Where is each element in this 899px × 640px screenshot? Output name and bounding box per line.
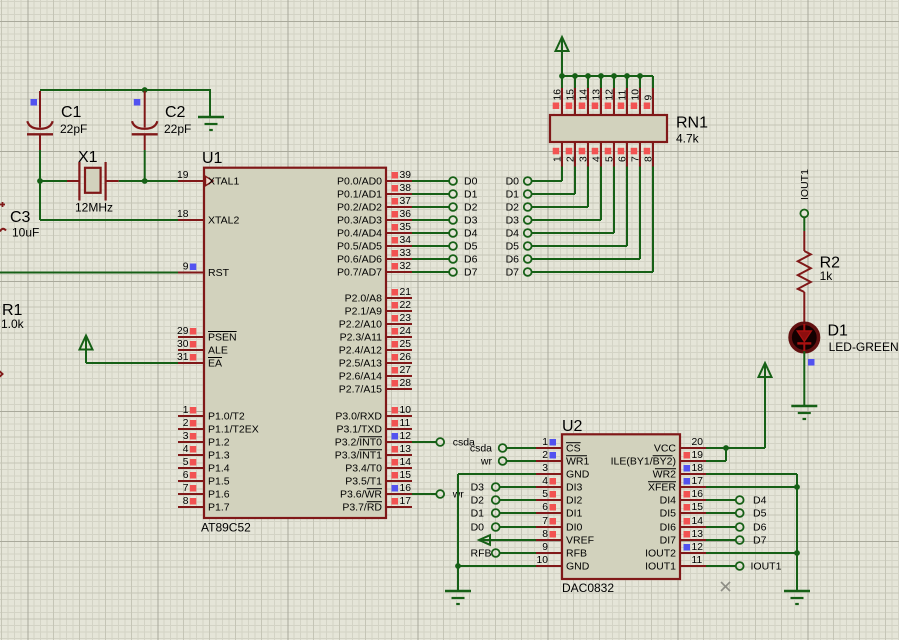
- LED D1 selection mark: [808, 359, 815, 366]
- terminal D6 (left column): [449, 255, 457, 263]
- svg-text:3: 3: [183, 431, 189, 442]
- RN1 pin 1 (bottom): [553, 142, 564, 167]
- capacitor C1 curved plate: [27, 121, 52, 129]
- junction top wire / C2: [142, 87, 148, 93]
- svg-text:P3.3/INT1: P3.3/INT1: [335, 450, 382, 462]
- svg-text:ILE(BY1/BY2): ILE(BY1/BY2): [611, 456, 676, 468]
- svg-text:ALE: ALE: [208, 345, 228, 357]
- svg-text:12: 12: [692, 542, 704, 553]
- U1 pin 24 (P2.3/A11): [386, 326, 412, 337]
- junction RN1 bus pin 11: [624, 73, 630, 79]
- terminal D4 (RN1 column): [524, 229, 532, 237]
- svg-text:5: 5: [183, 457, 189, 468]
- svg-text:16: 16: [400, 483, 412, 494]
- svg-text:9: 9: [542, 542, 548, 553]
- U2 pin 17 (XFER): [680, 476, 706, 487]
- wire C2 bottom to node: [144, 150, 146, 181]
- terminal D5 (left column): [449, 242, 457, 250]
- wire U2 to terminal D7: [706, 539, 736, 541]
- svg-text:D0: D0: [471, 522, 485, 534]
- wire terminal D6 to RN1 pin 7: [532, 167, 640, 260]
- svg-text:1k: 1k: [820, 269, 834, 283]
- wire terminal D1 to RN1 pin 2: [532, 167, 575, 195]
- svg-text:12: 12: [605, 89, 616, 101]
- U1 pin name labels (right column): [335, 176, 383, 514]
- svg-text:8: 8: [183, 496, 189, 507]
- svg-text:P3.1/TXD: P3.1/TXD: [336, 424, 382, 436]
- svg-text:DI1: DI1: [566, 508, 583, 520]
- svg-text:P2.6/A14: P2.6/A14: [339, 371, 382, 383]
- RN1 pin 5 (bottom): [605, 142, 616, 167]
- junction RN1 bus pin 10: [637, 73, 643, 79]
- svg-text:1.0k: 1.0k: [1, 317, 25, 331]
- svg-text:22: 22: [400, 300, 412, 311]
- wire C1/C2 top to ground: [40, 89, 211, 91]
- svg-text:DI2: DI2: [566, 495, 583, 507]
- wire power to EA row: [85, 350, 87, 364]
- svg-text:IOUT1: IOUT1: [751, 561, 782, 573]
- wire U1 P0.1 to terminal D1: [412, 193, 449, 195]
- junction RN1 bus pin 15: [572, 73, 578, 79]
- svg-text:2: 2: [566, 156, 577, 162]
- terminal D3 (RN1 column): [524, 216, 532, 224]
- svg-text:DI7: DI7: [660, 535, 677, 547]
- svg-text:DI4: DI4: [660, 495, 677, 507]
- U1 pin 26 (P2.5/A13): [386, 352, 412, 363]
- svg-text:D4: D4: [753, 495, 767, 507]
- svg-text:DI6: DI6: [660, 522, 677, 534]
- svg-text:C1: C1: [61, 104, 82, 121]
- svg-text:P1.0/T2: P1.0/T2: [208, 411, 245, 423]
- RN1 pin 13 (top): [592, 77, 603, 115]
- svg-text:XFER: XFER: [648, 482, 676, 494]
- svg-text:9: 9: [183, 262, 189, 273]
- wire to XTAL2 pin: [40, 219, 178, 221]
- wire VCC up to power: [764, 377, 766, 448]
- wire U1 P3.6 to terminal wr: [412, 493, 436, 495]
- capacitor C2 selection mark: [134, 99, 141, 106]
- junction RN1 bus pin 14: [585, 73, 591, 79]
- wire terminal D4 to RN1 pin 5: [532, 167, 614, 234]
- no-connect X marker: [721, 582, 730, 591]
- svg-text:1: 1: [183, 405, 189, 416]
- op-amp U2 body (DAC0832): [562, 434, 680, 579]
- svg-text:D7: D7: [506, 267, 520, 279]
- crystal X1: [67, 162, 119, 201]
- svg-text:38: 38: [400, 183, 412, 194]
- RN1 pin 14 (top): [579, 77, 590, 115]
- U1 pin 13 (P3.3/INT1): [386, 444, 412, 455]
- svg-text:18: 18: [177, 209, 189, 220]
- capacitor C1 selection mark: [31, 99, 38, 106]
- op-amp U1 body (AT89C52): [204, 168, 386, 518]
- svg-text:P2.5/A13: P2.5/A13: [339, 358, 382, 370]
- svg-text:6: 6: [542, 502, 548, 513]
- svg-text:EA: EA: [208, 358, 222, 370]
- svg-text:2: 2: [542, 450, 548, 461]
- wire XFER pin17: [706, 486, 797, 488]
- svg-text:24: 24: [400, 326, 412, 337]
- svg-text:D0: D0: [506, 176, 520, 188]
- U1 pin 29 (PSEN): [177, 326, 204, 337]
- wire RST net: [0, 272, 178, 274]
- terminal wr (U2 side): [499, 457, 507, 465]
- svg-text:VREF: VREF: [566, 535, 594, 547]
- wire to EA pin: [86, 362, 178, 364]
- svg-text:10: 10: [537, 555, 549, 566]
- svg-text:D6: D6: [753, 522, 767, 534]
- U1 pin 38 (P0.1/AD1): [386, 183, 412, 194]
- wire bus down to RN1 pin 9: [652, 76, 654, 87]
- RN1 pin 12 (top): [605, 77, 616, 115]
- wire U1 P0.7 to terminal D7: [412, 271, 449, 273]
- U1 pin 27 (P2.6/A14): [386, 365, 412, 376]
- terminal D3 (U2 side): [492, 483, 500, 491]
- wire WR2 pin18: [706, 473, 797, 475]
- terminal D2 (U2 side): [492, 496, 500, 504]
- svg-text:P3.5/T1: P3.5/T1: [345, 476, 382, 488]
- wire U2 GND pin3: [458, 473, 536, 475]
- svg-text:7: 7: [631, 156, 642, 162]
- ground G3 (U2 right): [784, 591, 810, 604]
- svg-text:XTAL2: XTAL2: [208, 215, 239, 227]
- terminal RFB: [492, 549, 500, 557]
- wire U1 P0.5 to terminal D5: [412, 245, 449, 247]
- svg-text:csda: csda: [470, 443, 492, 455]
- svg-text:RFB: RFB: [471, 548, 492, 560]
- RN1 pin 3 (bottom): [579, 142, 590, 167]
- svg-text:35: 35: [400, 222, 412, 233]
- svg-text:14: 14: [400, 457, 412, 468]
- U1 pin 34 (P0.5/AD5): [386, 235, 412, 246]
- svg-text:P3.0/RXD: P3.0/RXD: [335, 411, 382, 423]
- svg-text:P0.4/AD4: P0.4/AD4: [337, 228, 382, 240]
- terminal csda (U2 side): [499, 444, 507, 452]
- U2 pin 19 (ILE(BY1/BY2)): [680, 450, 706, 461]
- svg-text:11: 11: [400, 418, 411, 429]
- wire D0 to U2: [500, 526, 536, 528]
- svg-text:13: 13: [692, 529, 704, 540]
- wire RN1 top bus: [562, 75, 653, 77]
- svg-text:32: 32: [400, 261, 412, 272]
- svg-text:19: 19: [177, 170, 189, 181]
- wire power to RN1 bus: [561, 51, 563, 76]
- U1 pin 15 (P3.5/T1): [386, 470, 412, 481]
- U2 pin 14 (DI6): [680, 516, 706, 527]
- wire U1 P0.4 to terminal D4: [412, 232, 449, 234]
- svg-text:15: 15: [692, 502, 704, 513]
- svg-text:D3: D3: [506, 215, 520, 227]
- U1 pin 19 (XTAL1): [177, 170, 204, 181]
- power arrow (EA net): [80, 336, 93, 350]
- U2 pin 16 (DI4): [680, 489, 706, 500]
- U2 pin 1 (CS): [536, 437, 562, 448]
- svg-text:11: 11: [692, 555, 703, 566]
- svg-text:P3.4/T0: P3.4/T0: [345, 463, 382, 475]
- ground G2 (U2 left): [445, 591, 471, 604]
- U2 pin 8 (VREF): [536, 529, 562, 540]
- wire terminal D7 to RN1 pin 8: [532, 167, 653, 273]
- U2 pin 13 (DI7): [680, 529, 706, 540]
- wire D1 to ground: [803, 351, 805, 405]
- svg-text:19: 19: [692, 450, 704, 461]
- svg-text:GND: GND: [566, 561, 590, 573]
- wire U2 GND pin10: [458, 565, 536, 567]
- U1 pin 16 (P3.6/WR): [386, 483, 412, 494]
- U1 XTAL1 clock chevron: [206, 176, 214, 185]
- svg-text:D3: D3: [471, 482, 485, 494]
- capacitor C3 (partially off-canvas): [0, 202, 6, 232]
- wire csda to U2 CS: [507, 447, 536, 449]
- U2 pin 10 (GND): [536, 555, 562, 566]
- svg-text:CS: CS: [566, 443, 581, 455]
- wire pin19 up: [725, 448, 727, 461]
- capacitor C1 lead top: [39, 91, 41, 128]
- svg-text:8: 8: [542, 529, 548, 540]
- U2 pin 20 (VCC): [680, 437, 706, 448]
- svg-text:D7: D7: [753, 535, 767, 547]
- svg-text:D1: D1: [828, 323, 849, 340]
- svg-text:P2.4/A12: P2.4/A12: [339, 345, 382, 357]
- wire VCC pin20: [706, 447, 765, 449]
- svg-text:34: 34: [400, 235, 412, 246]
- svg-text:23: 23: [400, 313, 412, 324]
- U1 pin 12 (P3.2/INT0): [386, 431, 412, 442]
- wire U2 to terminal D5: [706, 512, 736, 514]
- svg-text:4.7k: 4.7k: [676, 132, 700, 146]
- U1 pin 8 (P1.7): [178, 496, 204, 507]
- terminal D1 (U2 side): [492, 509, 500, 517]
- svg-text:12MHz: 12MHz: [75, 200, 113, 214]
- svg-text:D5: D5: [464, 241, 478, 253]
- wire terminal D5 to RN1 pin 6: [532, 167, 627, 247]
- svg-text:P3.7/RD: P3.7/RD: [342, 502, 382, 514]
- svg-text:D5: D5: [506, 241, 520, 253]
- terminal D1 (left column): [449, 190, 457, 198]
- svg-text:DI3: DI3: [566, 482, 583, 494]
- svg-text:P0.2/AD2: P0.2/AD2: [337, 202, 382, 214]
- terminal D4 (right): [736, 496, 744, 504]
- RN1 pin 16 (top): [553, 77, 564, 115]
- RN1 pin 7 (bottom): [631, 142, 642, 167]
- svg-text:D1: D1: [506, 189, 520, 201]
- U1 pin 37 (P0.2/AD2): [386, 196, 412, 207]
- svg-text:IOUT1: IOUT1: [799, 169, 811, 200]
- svg-text:11: 11: [618, 90, 629, 101]
- svg-text:18: 18: [692, 463, 704, 474]
- svg-text:D1: D1: [464, 189, 478, 201]
- svg-text:U1: U1: [202, 150, 223, 167]
- junction C1/XTAL2/crystal: [37, 178, 43, 184]
- svg-text:4: 4: [592, 156, 603, 162]
- U1 pin 5 (P1.4): [178, 457, 204, 468]
- svg-text:P0.6/AD6: P0.6/AD6: [337, 254, 382, 266]
- svg-text:36: 36: [400, 209, 412, 220]
- capacitor C1 lead bottom: [39, 134, 41, 150]
- wire U1 P0.6 to terminal D6: [412, 258, 449, 260]
- wire U2 to terminal D6: [706, 526, 736, 528]
- svg-text:RST: RST: [208, 267, 230, 279]
- svg-text:13: 13: [592, 89, 603, 101]
- svg-text:P3.2/INT0: P3.2/INT0: [335, 437, 382, 449]
- svg-text:1: 1: [553, 156, 564, 162]
- wire terminal D3 to RN1 pin 4: [532, 167, 601, 221]
- svg-text:15: 15: [400, 470, 412, 481]
- wire node to XTAL1 pin: [145, 180, 178, 182]
- svg-text:29: 29: [177, 326, 189, 337]
- U1 pin 1 (P1.0/T2): [178, 405, 204, 416]
- svg-text:10: 10: [631, 89, 642, 101]
- svg-text:22pF: 22pF: [60, 122, 87, 136]
- svg-text:X1: X1: [78, 149, 98, 166]
- svg-text:P0.7/AD7: P0.7/AD7: [337, 267, 382, 279]
- terminal D0 (RN1 column): [524, 177, 532, 185]
- svg-text:31: 31: [177, 352, 189, 363]
- capacitor C2 lead top: [144, 91, 146, 128]
- U1 pin 33 (P0.6/AD6): [386, 248, 412, 259]
- svg-text:3: 3: [579, 156, 590, 162]
- wire crystal right to node: [119, 180, 145, 182]
- svg-text:39: 39: [400, 170, 412, 181]
- terminal D5 (RN1 column): [524, 242, 532, 250]
- RN1 pin 6 (bottom): [618, 142, 629, 167]
- U1 pin 28 (P2.7/A15): [386, 378, 412, 389]
- terminal wr (U1 side): [436, 490, 444, 498]
- wire U1 P3.2 to terminal csda: [412, 441, 436, 443]
- svg-text:28: 28: [400, 378, 412, 389]
- svg-text:P1.6: P1.6: [208, 489, 230, 501]
- U2 pin 15 (DI5): [680, 502, 706, 513]
- junction XFER net: [794, 484, 800, 490]
- svg-text:16: 16: [692, 489, 704, 500]
- U2 pin 5 (DI2): [536, 489, 562, 500]
- terminal IOUT1 (top): [800, 210, 808, 218]
- U1 pin 17 (P3.7/RD): [386, 496, 412, 507]
- ground G1 (oscillator): [198, 117, 224, 130]
- svg-text:27: 27: [400, 365, 412, 376]
- terminal D6 (RN1 column): [524, 255, 532, 263]
- wire IOUT1 to R2: [803, 217, 805, 231]
- ground G4 (LED): [791, 406, 817, 419]
- terminal D1 (RN1 column): [524, 190, 532, 198]
- svg-text:DAC0832: DAC0832: [562, 581, 614, 595]
- terminal D2 (RN1 column): [524, 203, 532, 211]
- svg-text:4: 4: [183, 444, 189, 455]
- terminal D4 (left column): [449, 229, 457, 237]
- U2 pin 9 (RFB): [536, 542, 562, 553]
- terminal D6 (right): [736, 523, 744, 531]
- svg-text:D6: D6: [464, 254, 478, 266]
- U2 pin 12 (IOUT2): [680, 542, 706, 553]
- svg-text:8: 8: [644, 156, 655, 162]
- svg-text:AT89C52: AT89C52: [201, 521, 251, 535]
- RN1 pin 10 (top): [631, 77, 642, 115]
- terminal D7 (left column): [449, 268, 457, 276]
- svg-text:P0.5/AD5: P0.5/AD5: [337, 241, 382, 253]
- U2 pin 11 (IOUT1): [680, 555, 706, 566]
- svg-text:25: 25: [400, 339, 412, 350]
- U1 pin 4 (P1.3): [178, 444, 204, 455]
- wire D2 to U2: [500, 499, 536, 501]
- svg-text:9: 9: [644, 95, 655, 101]
- svg-text:6: 6: [183, 470, 189, 481]
- svg-text:VCC: VCC: [654, 443, 677, 455]
- U1 pin 25 (P2.4/A12): [386, 339, 412, 350]
- svg-text:P1.5: P1.5: [208, 476, 230, 488]
- terminal D3 (left column): [449, 216, 457, 224]
- U1 pin 7 (P1.6): [178, 483, 204, 494]
- junction C2/XTAL1/crystal: [142, 178, 148, 184]
- svg-text:WR2: WR2: [653, 469, 676, 481]
- U1 pin 35 (P0.4/AD4): [386, 222, 412, 233]
- wire node down to XTAL2 row: [39, 182, 41, 220]
- svg-text:P2.2/A10: P2.2/A10: [339, 319, 382, 331]
- U2 pin 2 (WR1): [536, 450, 562, 461]
- svg-text:D5: D5: [753, 508, 767, 520]
- svg-text:P2.3/A11: P2.3/A11: [340, 332, 383, 344]
- svg-text:P1.1/T2EX: P1.1/T2EX: [208, 424, 259, 436]
- U2 pin 6 (DI1): [536, 502, 562, 513]
- svg-text:RFB: RFB: [566, 548, 587, 560]
- svg-text:DI0: DI0: [566, 522, 583, 534]
- svg-text:D4: D4: [464, 228, 478, 240]
- wire U2 to terminal D4: [706, 499, 736, 501]
- junction IOUT2 net: [794, 550, 800, 556]
- svg-text:16: 16: [553, 89, 564, 101]
- svg-text:XTAL1: XTAL1: [208, 176, 239, 188]
- svg-text:LED-GREEN: LED-GREEN: [829, 340, 899, 354]
- capacitor C1 straight plate: [27, 133, 53, 135]
- wire U1 P0.2 to terminal D2: [412, 206, 449, 208]
- wire terminal D0 to RN1 pin 1: [532, 167, 562, 182]
- U1 pin 10 (P3.0/RXD): [386, 405, 412, 416]
- svg-text:14: 14: [579, 89, 590, 101]
- power arrow (VCC): [759, 363, 772, 377]
- U1 pin 31 (EA): [177, 352, 204, 363]
- svg-text:3: 3: [542, 463, 548, 474]
- svg-text:2: 2: [183, 418, 189, 429]
- svg-text:C2: C2: [165, 104, 186, 121]
- junction VCC net: [723, 445, 729, 451]
- power arrow (RN1 pull-up): [556, 37, 569, 51]
- svg-text:20: 20: [692, 437, 704, 448]
- svg-text:P1.4: P1.4: [208, 463, 230, 475]
- svg-text:5: 5: [542, 489, 548, 500]
- svg-text:D4: D4: [506, 228, 520, 240]
- U1 pin name labels (left column): [208, 176, 259, 514]
- U1 pin 2 (P1.1/T2EX): [178, 418, 204, 429]
- svg-text:D2: D2: [464, 202, 478, 214]
- RN1 pin 11 (top): [618, 77, 629, 115]
- wire D3 to U2: [500, 486, 536, 488]
- svg-text:P1.3: P1.3: [208, 450, 230, 462]
- resistor R2: [798, 231, 811, 322]
- capacitor C2 curved plate: [132, 121, 157, 129]
- wire C1 bottom to node: [39, 150, 41, 181]
- U2 pin name labels: [566, 443, 676, 573]
- svg-text:U2: U2: [562, 418, 583, 435]
- terminal D0 (left column): [449, 177, 457, 185]
- junction GND net: [455, 563, 461, 569]
- wire D1 to U2: [500, 512, 536, 514]
- RN1 pin 15 (top): [566, 77, 577, 115]
- svg-text:4: 4: [542, 476, 548, 487]
- svg-text:D7: D7: [464, 267, 478, 279]
- svg-text:22pF: 22pF: [164, 122, 191, 136]
- svg-text:7: 7: [542, 516, 548, 527]
- capacitor C2 lead bottom: [144, 134, 146, 150]
- svg-text:10uF: 10uF: [12, 226, 39, 240]
